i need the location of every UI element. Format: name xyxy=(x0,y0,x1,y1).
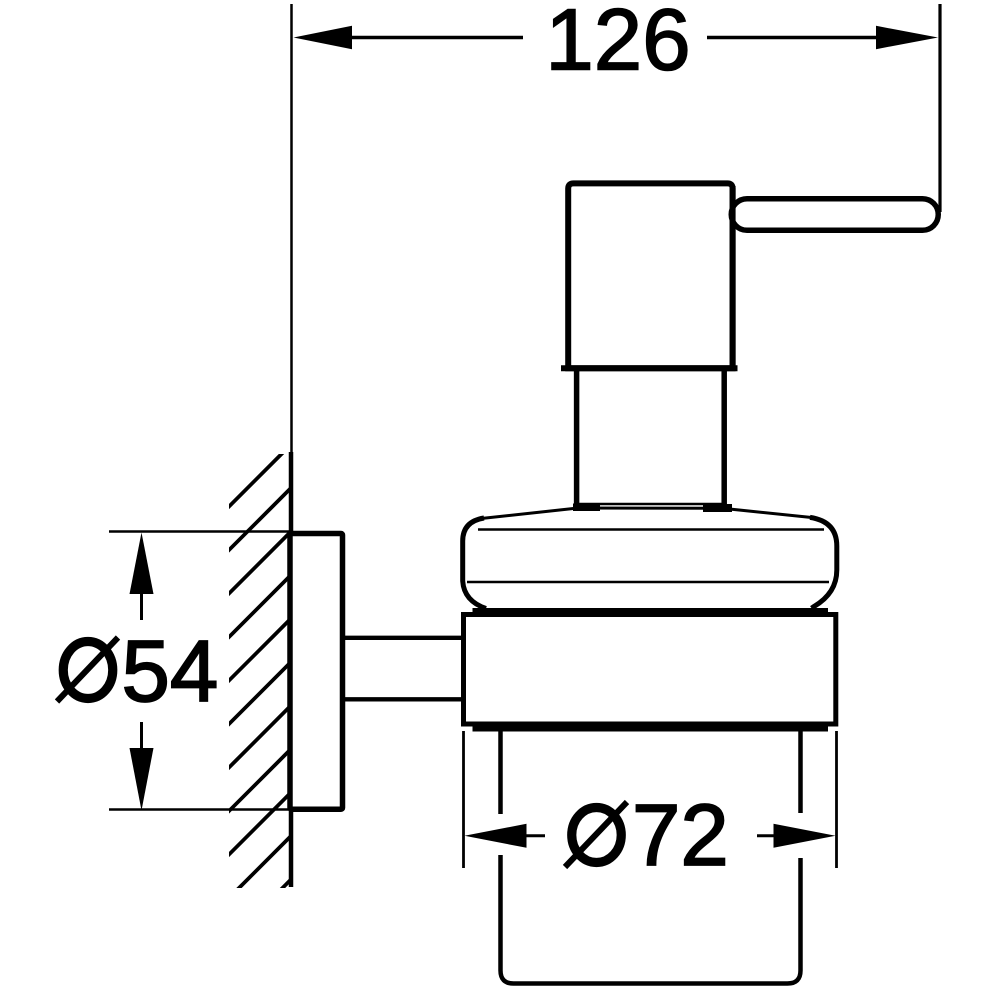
dimension 126 left arrowhead xyxy=(294,26,353,49)
pump head right edge over spout xyxy=(730,186,736,366)
collar junction blob right xyxy=(703,504,732,512)
glass left wall upper segment xyxy=(498,728,503,814)
collar (bottle shoulder) fill xyxy=(463,508,837,609)
dim 54 line lower stub xyxy=(140,722,143,748)
pump tube bottom line xyxy=(578,503,723,506)
collar inner line lower xyxy=(467,581,829,584)
svg-text:72: 72 xyxy=(632,787,729,884)
pump tube fill xyxy=(579,366,722,503)
pump tube left line xyxy=(574,366,580,507)
pump head xyxy=(568,183,732,368)
collar left side xyxy=(463,518,486,609)
dimension 126 right arrowhead xyxy=(876,26,938,49)
dimension text 72 xyxy=(565,787,729,884)
dim 54 down arrowhead xyxy=(130,748,154,811)
pump head bottom edge xyxy=(561,365,738,371)
dim 54 bottom extension line xyxy=(109,808,291,810)
collar top-middle edge xyxy=(578,507,722,510)
dimension 126 line left segment xyxy=(350,36,523,39)
dimension 126 left extension line xyxy=(290,4,293,452)
svg-text:126: 126 xyxy=(545,0,690,89)
dim 72 left extension line xyxy=(462,731,465,868)
pump tube right line xyxy=(721,366,727,507)
svg-text:54: 54 xyxy=(122,623,219,720)
wall mounting plate xyxy=(290,534,343,810)
dim 54 top extension line xyxy=(109,530,291,532)
dim 72 right stub xyxy=(757,834,774,837)
dimension 126 right extension line xyxy=(938,4,941,212)
holder ring body xyxy=(464,615,836,725)
mounting arm bottom line xyxy=(343,697,466,701)
glass right wall upper segment xyxy=(798,728,803,813)
dimension 126 line right segment xyxy=(707,36,878,39)
collar top-right slope xyxy=(722,508,814,518)
holder top band xyxy=(473,608,829,617)
holder bottom band xyxy=(473,722,829,732)
dim 72 left arrowhead xyxy=(465,824,527,848)
dimension text 54 xyxy=(57,623,218,720)
wall hatching xyxy=(227,444,292,944)
dim 72 left stub xyxy=(527,834,546,837)
glass lower body xyxy=(501,855,801,984)
collar right side xyxy=(810,517,837,608)
collar junction blob left xyxy=(573,504,600,512)
dim 72 right extension line xyxy=(835,731,838,868)
collar top-left slope xyxy=(480,508,578,519)
dim 54 line upper stub xyxy=(140,594,143,620)
spout xyxy=(731,199,938,231)
dim 54 up arrowhead xyxy=(130,533,154,595)
collar inner line upper xyxy=(478,528,824,531)
mounting arm top line xyxy=(343,636,466,640)
dim 72 right arrowhead xyxy=(774,824,836,848)
wall line xyxy=(289,452,294,887)
